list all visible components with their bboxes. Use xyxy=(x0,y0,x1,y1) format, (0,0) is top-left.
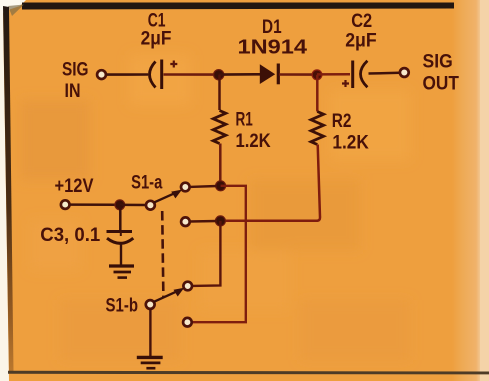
svg-text:SIG: SIG xyxy=(423,51,453,73)
frame top black bar xyxy=(22,3,454,10)
wire J1 to diode xyxy=(219,73,262,76)
wire J2 to C2 xyxy=(317,73,350,76)
background mottling patches xyxy=(0,0,1,1)
svg-text:D1: D1 xyxy=(262,16,282,38)
frame corner smudge xyxy=(8,5,24,17)
svg-text:S1-a: S1-a xyxy=(131,172,162,194)
svg-text:1.2K: 1.2K xyxy=(332,132,368,154)
wire J4 down to throw C row xyxy=(192,221,220,286)
right light edge strip xyxy=(0,0,1,1)
top-left white corner xyxy=(0,0,26,15)
contact circle throw A xyxy=(181,183,190,192)
switch S1-a pole contact xyxy=(146,201,155,210)
wire J3 right, down and to throw D xyxy=(192,186,246,322)
capacitor C3 straight plate xyxy=(107,230,133,233)
contact circle throw D xyxy=(183,318,192,327)
wire J5 to S1-a pole xyxy=(120,204,146,207)
capacitor C1 straight plate xyxy=(160,60,163,90)
wire throw B to J4 xyxy=(190,220,217,223)
wire diode to node J2 xyxy=(279,73,313,76)
wire C2 to SIG OUT xyxy=(369,72,401,75)
wire C3 to ground xyxy=(120,244,122,265)
ground G1 (under C3) xyxy=(109,266,134,278)
wire J5 down to C3 xyxy=(119,205,122,230)
node J1 (C1/D1/R1 junction) xyxy=(214,70,224,80)
svg-text:OUT: OUT xyxy=(423,73,459,95)
svg-text:SIG: SIG xyxy=(62,59,89,81)
right outer cream edge xyxy=(480,0,489,381)
node J2 (D1/C2/R2 junction) xyxy=(312,70,322,80)
svg-text:S1-b: S1-b xyxy=(106,295,139,317)
contact circle throw C xyxy=(183,282,192,291)
node J3 (R1 bottom / S1-a throw) xyxy=(216,181,226,191)
wire R1 down to node J3 xyxy=(219,144,222,184)
wire S1-b pole to ground xyxy=(149,309,151,356)
wire +12V to node J5 xyxy=(70,203,117,206)
wire J2 down to R2 xyxy=(316,75,319,112)
wire R2 down and left to node J4 xyxy=(221,145,320,221)
contact circle throw B xyxy=(181,217,190,226)
ground G2 (under S1-b) xyxy=(137,357,163,368)
svg-text:1N914: 1N914 xyxy=(238,37,309,59)
bottom dark rule xyxy=(8,371,489,375)
switch S1-b pole contact xyxy=(146,300,155,309)
plus sign C2 xyxy=(342,80,349,87)
gang link dashed line S1-a to S1-b xyxy=(162,211,163,298)
svg-text:C3, 0.1: C3, 0.1 xyxy=(40,224,100,246)
diode D1 xyxy=(260,64,279,85)
frame left black bar xyxy=(0,0,1,1)
wire C1 to node J1 xyxy=(164,73,216,76)
terminal +12V xyxy=(61,200,70,209)
svg-text:R1: R1 xyxy=(236,109,253,131)
svg-text:R2: R2 xyxy=(332,110,352,132)
capacitor C3 curved plate xyxy=(107,238,133,243)
svg-text:2μF: 2μF xyxy=(141,28,172,50)
svg-text:2μF: 2μF xyxy=(345,30,377,52)
capacitor C2 curved plate xyxy=(361,61,368,87)
svg-text:1.2K: 1.2K xyxy=(236,130,271,152)
svg-text:+12V: +12V xyxy=(55,175,94,197)
capacitor C3 plate stub xyxy=(120,232,122,237)
plus sign C1 xyxy=(170,61,177,68)
wire SIG IN to C1 xyxy=(107,73,149,76)
wire J1 down to R1 xyxy=(218,75,221,110)
node J4 (row B junction) xyxy=(215,216,225,226)
svg-text:IN: IN xyxy=(65,80,81,102)
resistor R1 xyxy=(213,111,226,144)
resistor R2 xyxy=(311,112,324,145)
capacitor C2 straight plate xyxy=(351,61,354,89)
node J5 (+12V / C3 junction) xyxy=(115,200,125,210)
switch S1-b arm with arrow xyxy=(154,288,185,302)
wire throw A to J3 xyxy=(190,185,218,188)
left white outer edge xyxy=(0,10,9,381)
terminal SIG OUT xyxy=(400,68,409,77)
switch S1-a arm with arrow xyxy=(154,190,182,203)
capacitor C1 curved plate xyxy=(150,62,156,88)
terminal SIG IN xyxy=(97,70,106,79)
